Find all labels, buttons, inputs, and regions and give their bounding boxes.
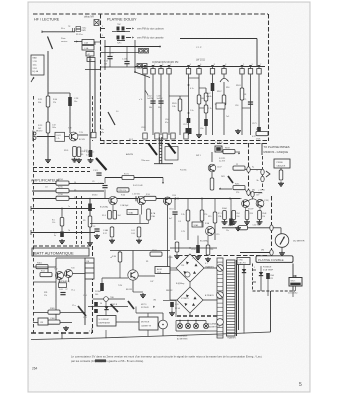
resistor R305 <box>48 308 60 314</box>
capacitor C162 <box>147 96 156 110</box>
wire feed line 14 <box>32 181 104 184</box>
wire feed line 4 <box>31 230 95 235</box>
capacitor C123 electrolytic <box>54 232 64 238</box>
wire drops to bus <box>62 329 244 339</box>
ground gnd-s9b <box>109 239 115 244</box>
resistor R163 <box>236 85 247 100</box>
node 720m label <box>141 142 223 172</box>
wire y223 link <box>90 205 149 229</box>
wire s9 bottom mesh <box>140 215 208 255</box>
ground gnd-x90 <box>88 158 94 163</box>
wire preamp top <box>105 178 164 199</box>
wire col x250 <box>250 75 252 136</box>
node BR mid circle <box>185 272 190 277</box>
ground gnd-s9e <box>195 255 201 260</box>
wire col x212 <box>213 75 218 136</box>
node ref cable label <box>258 190 266 195</box>
wire casque dashed x262 <box>262 156 264 190</box>
resistor R40 casque <box>279 168 283 180</box>
ground gnd-s9d <box>174 254 180 259</box>
capacitor C170 <box>244 99 253 104</box>
node ORD box <box>237 258 250 265</box>
wire col x259 <box>258 75 260 136</box>
ground gnd-batt <box>63 326 69 331</box>
ground gnd-x70 <box>72 158 78 163</box>
wire x48 upper link <box>48 92 70 94</box>
node mic jack <box>32 131 36 148</box>
node OSC box <box>86 52 94 57</box>
wire batt bottom mesh <box>33 328 92 334</box>
node eclairage cassette label <box>208 323 221 329</box>
lamp LP4 <box>203 323 208 328</box>
resistor R164 <box>256 129 268 141</box>
node prise casque box <box>274 159 290 168</box>
transistor Q10 <box>208 164 216 172</box>
node TB box <box>215 146 222 152</box>
ground gnd-x90b <box>87 241 93 246</box>
resistor R301 <box>36 263 48 269</box>
node bottom pin B2 <box>155 133 159 139</box>
lamp LP3 <box>193 323 198 328</box>
wire vertical x48 <box>47 51 49 158</box>
wire ampli section dashed 2 <box>33 171 90 173</box>
node connector strip <box>217 258 223 338</box>
resistor R265 <box>228 225 248 230</box>
node page number left <box>32 367 38 371</box>
node block S224 <box>216 103 225 109</box>
node connector pin P11 <box>257 64 261 74</box>
node EQ head box <box>31 55 44 75</box>
capacitor C17 <box>104 40 136 72</box>
capacitor C153 electrolytic <box>226 219 233 233</box>
capacitor C121 <box>93 170 102 175</box>
wire divider dashed x92 <box>92 96 94 141</box>
switch SW1 lever <box>168 144 201 158</box>
wire meter wire1 <box>222 225 270 228</box>
transistor Q31 <box>54 269 64 280</box>
node BATT AUTOMATIQUE title <box>32 248 89 256</box>
node 50u label <box>61 26 75 32</box>
wire ct labels <box>83 295 87 319</box>
node pin3 tick <box>101 26 106 29</box>
capacitor C134 <box>122 47 130 68</box>
resistor R173 <box>147 209 156 220</box>
node PLATINE DOLBY title <box>107 18 137 22</box>
node LINE box <box>82 46 94 51</box>
node micro label <box>36 131 43 133</box>
wire col x161 <box>160 75 162 136</box>
node BC239A label <box>181 231 219 243</box>
wire long bottom bus <box>31 332 271 340</box>
resistor R161 <box>175 242 179 252</box>
node REC box <box>82 40 94 45</box>
node DIN connector B <box>117 36 126 45</box>
wire secteur arrow <box>268 275 297 291</box>
wire power interlink <box>170 247 217 248</box>
node cluster 50 <box>94 302 102 313</box>
resistor R105 <box>64 147 76 157</box>
wire lamp row dashed <box>177 315 218 317</box>
node connector pin P2 <box>151 64 155 74</box>
wire arrow u <box>219 188 232 190</box>
wire divider dashed lecture/dolby <box>100 14 102 141</box>
resistor R214 <box>56 179 77 185</box>
node REC NIVEAU strip <box>159 137 162 164</box>
wire link y69 <box>85 69 100 71</box>
transistor Q12 <box>120 196 146 207</box>
wire batt section top dashed <box>33 245 92 247</box>
wire sw strip links <box>212 152 247 192</box>
switch SW2 lever <box>149 144 158 156</box>
wire batt wire a <box>33 267 56 277</box>
node HF/LECTURE title <box>34 18 60 22</box>
wire fusible box bottom <box>253 290 296 292</box>
resistor R157 <box>208 212 217 223</box>
wire vertical x257 top <box>256 39 258 67</box>
ground gnd-m2 <box>244 220 263 225</box>
wire col x199 <box>189 75 207 134</box>
resistor R216 <box>56 194 77 200</box>
node strip circle1 <box>217 265 224 272</box>
node DU METER label <box>293 241 305 243</box>
ground gnd-s9g <box>235 226 241 231</box>
wire play line <box>74 40 82 42</box>
node OK box <box>38 318 48 325</box>
wire col x242 <box>235 75 251 136</box>
wire mains down <box>267 291 269 296</box>
wire q13 links <box>175 199 231 241</box>
resistor R302 <box>40 271 52 277</box>
connector oval J1 <box>247 167 262 173</box>
node TNB junction <box>104 297 115 302</box>
wire motor line2 <box>136 307 163 321</box>
ground gnd-casque <box>278 182 284 187</box>
wire batt right dashed <box>92 246 94 333</box>
transformer T1 winding <box>227 260 236 336</box>
node LW1011 label <box>196 60 206 62</box>
node BR1 labels <box>168 257 215 269</box>
wire dubbing arrow A <box>112 27 134 31</box>
wire sec line <box>243 273 245 331</box>
diode D20 <box>242 265 246 273</box>
ground gnd-x75 <box>76 158 82 163</box>
node moteur cassette box <box>139 317 158 330</box>
wire dubbing arrow B <box>126 36 134 38</box>
node PLATINE FUSIBLE title <box>256 256 293 263</box>
node trimpot TP1 <box>139 49 149 54</box>
wire lamp feed <box>176 320 206 324</box>
motor M2 <box>159 320 168 329</box>
node S2 pin box <box>91 132 96 138</box>
wire mic to base <box>37 125 70 142</box>
connector oval J5 <box>270 225 273 231</box>
resistor R215 <box>45 187 77 193</box>
wire y52 link <box>100 52 140 54</box>
resistor R267 <box>245 211 266 220</box>
wire col x180 link <box>169 96 180 135</box>
wire col x169 <box>165 75 169 136</box>
node motor rc cluster <box>163 300 181 317</box>
node block C180 <box>186 128 192 134</box>
node bottom pin B5 <box>184 133 188 139</box>
ground gnd-meter <box>279 247 285 255</box>
node relais box <box>85 258 94 279</box>
node 220V label <box>288 293 298 295</box>
resistor R167b <box>217 91 226 105</box>
node C156 dot <box>172 195 177 200</box>
node trimpot TP2 <box>137 64 147 69</box>
switch batt lever2 <box>111 304 119 312</box>
resistor R071 <box>122 173 134 179</box>
capacitor C181 <box>200 119 208 130</box>
resistor R211 <box>233 184 245 195</box>
ground gnd-m1 <box>222 220 237 225</box>
node bottom pin B3 <box>163 133 167 139</box>
node connector pin P7 <box>210 64 214 74</box>
wire fusible box right <box>292 264 294 292</box>
node vers PM couleurs <box>137 28 165 31</box>
transistor Q5 arcs <box>220 75 229 83</box>
wire col x153 <box>152 75 154 136</box>
capacitor C38 <box>95 283 104 296</box>
wire col x224 <box>224 82 229 135</box>
wire head input <box>42 31 75 34</box>
wire top dashed board border <box>33 13 268 15</box>
wire mid right dashed x271 <box>271 196 273 258</box>
resistor R183 <box>150 250 162 256</box>
node connector pin P6 <box>197 64 201 74</box>
resistor R2 trim stack <box>76 27 86 37</box>
wire left dashed border <box>33 96 35 333</box>
node pin1 tick <box>101 35 106 38</box>
wire br links <box>170 256 217 317</box>
ground gnd-osc <box>133 292 146 298</box>
node AB box <box>87 58 95 62</box>
wire vertical x95 <box>94 61 96 133</box>
resistor C88 <box>103 227 114 237</box>
resistor R103 <box>38 122 50 133</box>
switch SW7 lever <box>128 301 134 309</box>
wire feed line 16 <box>32 198 100 200</box>
wire feed line 15 <box>32 190 104 192</box>
wire alim drop <box>167 198 169 267</box>
ground gnd-x48 <box>45 158 51 163</box>
wire vertical x90 <box>89 56 91 150</box>
transistor Q1 <box>68 128 78 141</box>
node B6Meg label <box>110 257 184 285</box>
node ALIM CUE box <box>155 267 170 275</box>
wire fusible box left <box>252 264 254 292</box>
rectifier bridge BR2 <box>177 287 203 313</box>
wire col x259 ext <box>256 100 258 130</box>
resistor R7 bias <box>77 147 87 157</box>
node bottom pin B1 <box>143 133 147 139</box>
rectifier bridge BR1 <box>176 254 204 282</box>
node connector pin P8 <box>222 64 226 74</box>
switch S6 lever <box>44 292 86 316</box>
capacitor C122 electrolytic <box>88 204 92 212</box>
node vers PM cassette <box>137 37 164 40</box>
transistor Q14 power <box>118 270 138 291</box>
node SW-2 label <box>86 139 133 157</box>
wire motor line <box>88 305 128 307</box>
transistor Q21 <box>242 200 250 208</box>
node C49 oval <box>251 191 259 197</box>
connector oval J2 <box>247 190 262 196</box>
wire meter link <box>274 228 282 234</box>
wire Q1 out <box>78 134 88 136</box>
wire lamp bottom <box>176 321 217 332</box>
node C211 label <box>219 158 226 163</box>
node strip circle3 <box>217 319 224 326</box>
ground gnd-s9f <box>205 257 211 262</box>
wire main rail y204 <box>90 198 240 200</box>
wire col x206 <box>199 88 206 135</box>
capacitor C171 electrolytic <box>252 123 261 138</box>
wire batt mesh2 <box>33 313 85 323</box>
meter M1 <box>275 234 289 248</box>
capacitor C161 <box>98 183 108 188</box>
node connector pin P3 <box>159 64 163 74</box>
node delay NR label <box>84 16 99 26</box>
node C1P label <box>196 47 202 49</box>
transformer T1 core <box>237 260 239 336</box>
resistor R168 <box>204 93 211 101</box>
wire eq arrow <box>31 77 34 82</box>
resistor R217 <box>52 218 64 227</box>
resistor R44 <box>102 211 121 220</box>
wire mid right dashed x248 <box>248 143 250 196</box>
wire meter rail <box>225 199 261 211</box>
capacitor C159 <box>132 194 140 202</box>
node connector pin P10 <box>248 64 252 74</box>
lamp LP1 <box>177 323 182 328</box>
node connector pin P9 <box>240 64 244 74</box>
wire diag junction <box>100 71 150 134</box>
wire bottom heavy dashed <box>31 332 92 334</box>
wire ampli cable dashed a <box>76 196 78 246</box>
ground gnd-dolby2 <box>235 129 241 134</box>
connector oval J4 <box>257 176 265 182</box>
wire y46 link <box>105 46 161 48</box>
capacitor C179 film <box>183 118 190 126</box>
node page number right <box>299 382 302 388</box>
resistor R159 <box>117 188 129 192</box>
transistor Q11 <box>100 196 117 208</box>
wire arrow t <box>238 152 240 154</box>
wire dolby board bottom dashed 2 <box>100 143 268 145</box>
wire y67 link <box>100 66 135 68</box>
node CONNEXION MICRO label <box>152 62 178 64</box>
node C137 label <box>217 167 222 169</box>
node bottom pin B4 <box>171 133 175 139</box>
resistor R165 <box>172 99 182 111</box>
wire meter wire2 <box>240 250 270 253</box>
node connector pin P5 <box>186 64 190 74</box>
connector oval J6 <box>270 250 273 256</box>
diode D12 <box>104 304 118 310</box>
wire ampli cable dashed b <box>81 196 83 246</box>
resistor R306 <box>48 318 60 324</box>
node S2A3 box <box>178 221 210 227</box>
wire batt right mesh <box>93 299 140 322</box>
wire col x188 <box>180 75 194 136</box>
wire dolby rail <box>135 66 265 67</box>
diode D21 <box>259 266 263 291</box>
node eclairage metres label <box>177 335 188 341</box>
capacitor C163 <box>157 96 164 110</box>
wire osc mesh <box>102 251 178 293</box>
wire power board top dashed <box>178 255 268 257</box>
resistor R156 <box>200 210 207 221</box>
resistor R169 <box>204 105 211 113</box>
wire long bottom bus right <box>270 291 272 332</box>
wire right dashed board border <box>268 14 270 141</box>
node TO PLATINE PRISES label <box>262 143 290 155</box>
wire col x145 <box>139 75 148 132</box>
wire mains down2 <box>292 291 294 297</box>
node strip ticks <box>104 141 120 144</box>
capacitor C2 electrolytic <box>68 97 79 106</box>
capacitor C25 <box>59 289 68 295</box>
ground gnd-dolby1 <box>196 133 202 138</box>
wire osc top <box>110 251 170 254</box>
resistor R158t <box>223 148 235 154</box>
wire dolby board bottom dashed 1 <box>100 140 268 142</box>
capacitor C88a <box>93 226 100 231</box>
node Q1 labels <box>79 132 85 141</box>
node secteur box <box>289 278 302 287</box>
resistor R159t <box>233 164 245 170</box>
transistor Q15 <box>164 197 172 205</box>
capacitor C151 <box>169 209 178 221</box>
node R041 label <box>133 185 143 187</box>
node switch frame <box>165 147 178 161</box>
node battery label <box>58 280 75 292</box>
ground gnd-s9a <box>94 234 100 239</box>
wire long wire y38 <box>180 38 257 40</box>
capacitor C96 <box>131 227 141 237</box>
resistor R220 <box>83 216 92 227</box>
switch S5 lever <box>96 158 107 170</box>
node S2A2 box <box>127 194 156 215</box>
capacitor C167 electrolytic <box>206 83 214 98</box>
node diaphragm box <box>97 316 116 327</box>
wire ampli section dashed 1 <box>33 167 90 169</box>
ground gnd-x62 <box>59 239 65 244</box>
resistor R101 <box>38 96 57 107</box>
node TRANSFO label <box>227 337 237 340</box>
wire col x62 <box>61 209 63 232</box>
capacitor C28 <box>80 150 92 157</box>
resistor R174 <box>104 47 113 68</box>
resistor R262 <box>218 211 240 220</box>
wire vertical x90 low <box>89 198 91 242</box>
node tick x95 <box>94 42 101 46</box>
ground gnd-s9c <box>136 239 142 244</box>
lamp LP2 <box>185 323 190 328</box>
node footnote line1 <box>71 355 263 359</box>
wire sw bottom <box>154 163 173 165</box>
node BR2 label <box>166 290 214 297</box>
resistor R84 <box>112 251 122 279</box>
node MC text <box>248 197 254 210</box>
wire vertical x70 <box>69 93 71 133</box>
node footnote line2 <box>71 359 144 363</box>
node connector pin P4 <box>167 64 171 74</box>
node fusible label <box>263 267 274 272</box>
node piste service label <box>61 37 68 43</box>
